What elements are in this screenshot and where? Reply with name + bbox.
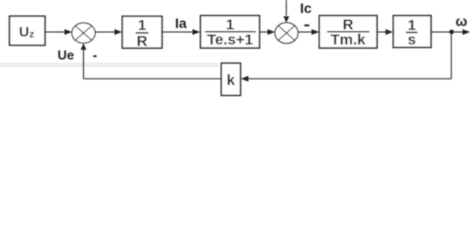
summing junction S2 — [275, 23, 298, 44]
faint scan band artifact — [0, 63, 218, 67]
block 1/s — [393, 16, 431, 49]
wire 1/R to block Te — [162, 29, 200, 35]
wire Te to S2 — [260, 29, 276, 35]
node dot on output — [449, 30, 454, 35]
svg-text:s: s — [408, 31, 416, 48]
wire feedback vertical right — [450, 32, 452, 79]
summing junction S1 — [72, 23, 95, 43]
wire S1 to block 1/R — [95, 29, 122, 35]
block 1/R — [122, 16, 162, 50]
svg-text:ω: ω — [456, 13, 468, 29]
wire feedback vertical left into S1 — [81, 43, 87, 78]
svg-text:Tm.k: Tm.k — [330, 32, 366, 49]
wire output to omega — [431, 29, 470, 35]
svg-text:k: k — [227, 72, 236, 89]
svg-text:Ic: Ic — [300, 0, 312, 16]
wire feedback horizontal left from k — [84, 78, 222, 80]
svg-text:Ue: Ue — [58, 47, 75, 62]
svg-text:1: 1 — [138, 17, 146, 34]
wire R/Tm.k to 1/s — [377, 29, 393, 35]
block Uz — [10, 16, 46, 45]
wire S2 to block R/Tm.k — [298, 29, 319, 35]
block R/(Tm.k) — [319, 16, 377, 49]
label minus at S1 — [93, 55, 96, 57]
svg-text:Te.s+1: Te.s+1 — [207, 32, 253, 49]
wire Ic input — [283, 0, 289, 23]
block k — [221, 63, 240, 95]
svg-text:R: R — [137, 33, 148, 50]
svg-text:Ia: Ia — [175, 15, 187, 31]
block 1/(Te.s+1) — [201, 16, 260, 49]
label minus at S2 — [304, 24, 309, 26]
wire Uz to S1 — [45, 29, 72, 35]
wire feedback horizontal right to k — [241, 76, 451, 82]
